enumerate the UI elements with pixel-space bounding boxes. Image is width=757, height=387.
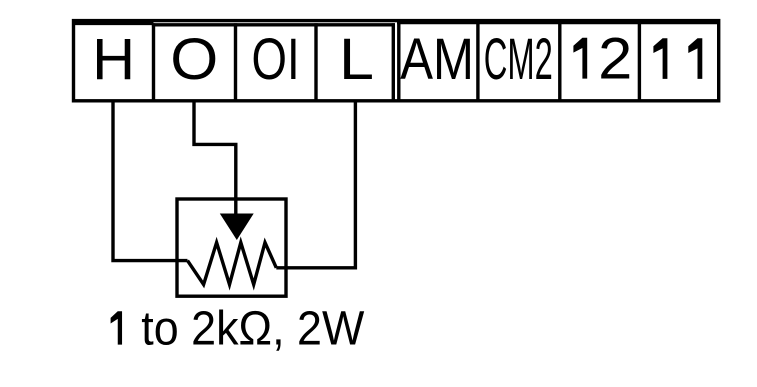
svg-text:O: O — [170, 27, 218, 92]
svg-text:2: 2 — [598, 27, 632, 92]
svg-text:L: L — [339, 27, 374, 92]
svg-text:H: H — [92, 27, 135, 92]
svg-text:to 2kΩ, 2W: to 2kΩ, 2W — [141, 303, 365, 356]
svg-text:AM: AM — [400, 27, 474, 92]
svg-text:OI: OI — [252, 27, 300, 92]
svg-text:CM2: CM2 — [484, 27, 553, 92]
